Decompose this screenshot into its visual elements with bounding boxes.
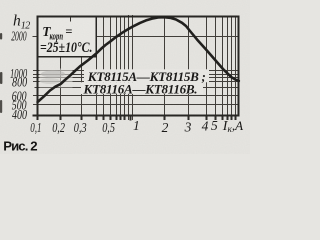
- gridline y=600 with tick: [33, 95, 239, 97]
- ticks below bottom frame: [61, 117, 236, 121]
- gridline x=4: [206, 16, 208, 120]
- gridline x=9: [235, 16, 237, 120]
- gridline x=0.8: [120, 16, 122, 120]
- frame left edge extension (0.1 tick): [37, 115, 39, 120]
- frame bottom extension (400 tick): [33, 115, 39, 117]
- text knockout patch line 2: [81, 82, 203, 94]
- text knockout patch line 1: [84, 69, 209, 82]
- gridline x=0.5: [103, 16, 105, 120]
- gridline x=3: [188, 16, 190, 120]
- scan grain: [0, 0, 1, 1]
- inset box Tкорп: [38, 17, 97, 57]
- curve h12 vs Ik: [38, 17, 239, 102]
- faded smudge over left part of 1000-700 grid cluster: [40, 69, 73, 88]
- gridline x=6: [222, 16, 224, 120]
- gridline x=0.3: [81, 17, 83, 120]
- paper background: [0, 0, 250, 154]
- gridline x=0.6: [110, 16, 112, 120]
- tick on top edge inside inset box: [70, 17, 72, 22]
- gridline x=5: [215, 16, 217, 120]
- left edge scan specks: [0, 33, 2, 40]
- gridline x=8: [231, 16, 233, 120]
- gridline y=900: [33, 77, 239, 79]
- gridline x=2: [164, 16, 166, 120]
- gridline x=0.2: [60, 17, 62, 120]
- gridline x=0.9: [124, 16, 126, 120]
- gridline y=950 (scan double): [33, 74, 239, 76]
- gridline y=1000 with tick: [33, 70, 239, 72]
- gridline x=1 major (doubled): [128, 15, 130, 120]
- gridline x=0.7: [116, 16, 118, 120]
- gridline y=700: [35, 87, 239, 89]
- gridline x=0.4: [96, 16, 98, 120]
- gridline y=800 with tick: [33, 81, 239, 83]
- gridline x=7: [227, 16, 229, 120]
- gridline y=2000 with tick: [33, 36, 239, 38]
- plot frame: [38, 17, 239, 116]
- gridline y=500 with tick: [33, 104, 239, 106]
